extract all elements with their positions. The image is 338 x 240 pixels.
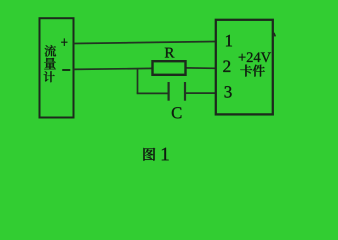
plus terminal mark (left box): [61, 38, 67, 46]
label 卡 (card text): [240, 65, 252, 77]
label char 4 of +24V: [254, 53, 261, 63]
label 流 (flow meter text): [45, 45, 57, 57]
capacitor label C: [172, 107, 182, 118]
label char V of +24V: [261, 53, 271, 63]
wire: resistor R to pin 2: [186, 67, 216, 69]
caption 图: [143, 148, 155, 161]
minus terminal mark (left box): [62, 69, 70, 71]
resistor R body: [153, 61, 186, 75]
label char 2 of +24V: [247, 52, 253, 62]
wire: junction drop from R wire: [137, 69, 139, 94]
right box: +24V card outline: [216, 20, 273, 115]
label 量 (flow meter text): [44, 58, 56, 70]
capacitor right plate: [184, 82, 186, 101]
pin number 1: [226, 35, 232, 46]
caption 1: [162, 148, 169, 161]
pin number 3: [225, 86, 232, 97]
wire: + terminal to pin 1: [74, 42, 216, 44]
wire: junction to capacitor left plate: [137, 92, 168, 94]
resistor label R: [165, 48, 175, 58]
label char + of +24V: [239, 54, 246, 61]
label 件 (card text): [253, 65, 265, 77]
wire: capacitor right plate to pin 3: [186, 92, 215, 94]
pin number 2: [223, 61, 230, 72]
label 计 (flow meter text): [44, 71, 55, 82]
sketch artifact on right box edge: [274, 33, 276, 37]
capacitor left plate: [168, 82, 170, 101]
left box: flow meter outline: [40, 18, 74, 117]
wire: - terminal to resistor R: [74, 68, 153, 69]
